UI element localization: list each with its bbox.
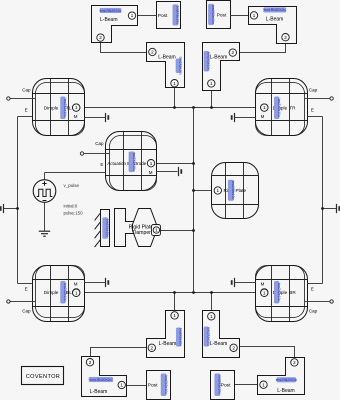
svg-text:bm2X2e10u: bm2X2e10u [176,6,180,24]
dimple D4 Cap wire [305,301,330,303]
dimple D3 Cap wire [11,301,36,303]
dimple D3 E wire [18,283,33,285]
wire: actuation pin1 to bus [155,163,194,165]
svg-text:1: 1 [75,290,78,295]
post P3 (bottom-left) instance label [161,374,168,396]
svg-text:2: 2 [151,345,154,350]
svg-text:1: 1 [217,188,220,193]
dimple D3 anchor [106,278,109,287]
L-beam B8 (bottom-right) pin 1 [260,381,267,388]
svg-text:bmLRN20X2u: bmLRN20X2u [276,378,297,382]
svg-text:Actuation Electrode: Actuation Electrode [107,161,147,166]
wire: L-beam ML pin1 drop [174,88,176,108]
L-beam B1 (top-left) pin 1 [128,12,135,19]
svg-text:BL: BL [66,290,72,295]
junction [192,189,195,192]
dimple D2 Cap wire [305,98,330,100]
L-beam B8 (bottom-right) [258,358,305,395]
dimple D2 (Dimple TR) [256,79,308,136]
L-beam B5 (bottom-mid-left) instance label [176,328,183,347]
svg-text:2: 2 [99,35,102,40]
dimple D1 (Dimple TL) [33,79,85,136]
svg-text:v_pulse: v_pulse [64,183,80,188]
svg-text:bmLRN20X2u: bmLRN20X2u [264,8,285,12]
wire: actuation Cap [84,153,110,155]
L-beam B3 (mid-left) [147,43,185,88]
wire: L-beam TL pin1 to post P1 [136,15,157,17]
voltage source v_pulse [33,180,56,203]
dimple D1 anchor [106,113,109,122]
junction [173,291,176,294]
svg-text:M: M [261,282,265,287]
L-beam B7 (bottom-left) instance label [89,377,113,382]
svg-text:1: 1 [155,228,158,233]
post P2 (top-right) instance label [208,4,215,25]
dimple D2 anchor [232,113,235,122]
svg-text:1: 1 [263,105,266,110]
junction [192,229,195,232]
svg-text:2: 2 [151,50,154,55]
dimple D4 pin 1 [261,289,268,296]
wire: L-beam TR pin2 to L-beam MR pin2 [237,44,286,53]
L-beam B1 (top-left) pin 2 [97,34,104,41]
L-beam B1 (top-left) instance label [100,8,121,13]
L-beam B4 (mid-right) [203,43,240,91]
L-beam B2 (top-right) instance label [264,8,287,13]
dimple D3 (Dimple BL) instance label [61,281,68,303]
L-beam B6 (bottom-mid-right) [203,311,240,358]
post P1 (top-left) instance label [173,5,180,26]
post P3 (bottom-left) [147,371,171,400]
svg-text:Cap: Cap [22,309,31,314]
svg-text:L-Beam: L-Beam [266,16,284,22]
L-beam B3 (mid-left) pin 1 [171,80,178,87]
wire: L-beam MR pin1 drop [211,91,213,108]
svg-text:Cap: Cap [22,87,31,92]
wire: drop to L-beam BMR pin1 [211,293,213,311]
svg-text:Post: Post [217,12,227,18]
damper U3 pin square [152,225,161,236]
dimple D4 (Dimple BR) instance label [274,281,281,303]
wire: L-beam BL pin2 to L-beam BML pin2 [91,348,149,357]
damper U3 pin 1 [153,227,159,233]
junction [210,291,213,294]
dimple D1 pin 1 [73,104,80,111]
svg-text:L-Beam: L-Beam [100,17,118,23]
actuation electrode U1 [106,132,157,191]
wire: damper pin1 to bus [161,230,194,232]
svg-text:bm2X2e10u: bm2X2e10u [277,99,281,117]
wire: center bus [193,108,195,293]
L-beam B6 (bottom-mid-right) pin 1 [208,313,215,320]
dimple D1 M wire [85,117,106,119]
post P4 (bottom-right) [211,371,235,400]
svg-text:2: 2 [293,360,296,365]
post P2 (top-right) [207,1,231,29]
actuation anchor [179,167,182,176]
L-beam B8 (bottom-right) pin 2 [291,359,298,366]
actuation electrode U1 pin 1 [147,160,154,167]
wire: left E bus [17,117,19,284]
left edge anchor [1,204,4,213]
post P4 (bottom-right) instance label [215,374,222,396]
dimple D2 E wire [308,116,323,118]
svg-text:E: E [311,287,314,292]
rigid plate U2 instance label [228,180,235,201]
post P1 (top-left) [157,2,181,29]
svg-text:1: 1 [253,13,256,18]
svg-text:Post: Post [221,383,231,389]
svg-text:Damper: Damper [133,230,151,236]
dimple D3 M wire [85,282,106,284]
svg-text:bm2X2e10u: bm2X2e10u [179,328,183,346]
junction [16,207,19,210]
svg-text:bm2X2e10u: bm2X2e10u [105,219,109,237]
svg-text:L-Beam: L-Beam [210,341,228,347]
dimple D2 (Dimple TR) instance label [274,97,281,119]
svg-text:E: E [25,107,28,112]
svg-text:initial:0: initial:0 [64,204,78,209]
L-beam B7 (bottom-left) pin 1 [118,381,125,388]
svg-text:E: E [25,287,28,292]
svg-text:E: E [100,162,103,167]
dimple D3 (Dimple BL) [33,266,85,322]
actuation electrode U1 instance label [129,152,136,172]
dimple D4 Cap terminal [330,300,333,303]
L-beam B7 (bottom-left) pin 2 [86,359,93,366]
dimple D1 (Dimple TL) instance label [61,97,68,119]
svg-text:Cap: Cap [309,87,318,92]
L-beam B2 (top-right) [249,7,297,44]
svg-text:TR: TR [289,105,296,110]
svg-text:bmLRN20X2u: bmLRN20X2u [100,9,121,13]
svg-text:L-Beam: L-Beam [158,55,176,61]
svg-text:2: 2 [232,50,235,55]
dimple D4 E wire [308,283,323,285]
actuation electrode U1 Cap terminal [80,152,83,155]
svg-text:bm2X2e10u: bm2X2e10u [178,57,182,75]
svg-text:2: 2 [232,345,235,350]
svg-text:2: 2 [89,360,92,365]
L-beam B7 (bottom-left) [82,357,127,397]
svg-text:pulse:150: pulse:150 [64,211,84,216]
L-beam B2 (top-right) pin 2 [282,34,289,41]
wire: right anchor tap [323,208,337,210]
dimple D4 (Dimple BR) [256,266,308,322]
L-beam B6 (bottom-mid-right) pin 2 [230,344,237,351]
dimple D4 anchor [232,278,235,287]
damper anchor instance label [103,218,110,239]
svg-text:L-Beam: L-Beam [277,388,295,394]
svg-text:bm2X2e10u: bm2X2e10u [277,283,281,301]
L-beam B4 (mid-right) instance label [204,51,211,71]
junction [321,207,324,210]
damper plunger [115,209,135,247]
dimple D3 Cap terminal [7,300,10,303]
L-beam B5 (bottom-mid-left) pin 1 [171,312,178,319]
svg-text:1: 1 [75,105,78,110]
rigid plate U2 pin 1 [214,187,221,194]
svg-text:Post: Post [158,13,168,19]
L-beam B3 (mid-left) instance label [176,57,183,75]
svg-text:1: 1 [210,314,213,319]
L-beam B5 (bottom-mid-left) pin 2 [148,344,155,351]
svg-text:1: 1 [131,13,134,18]
rigid plate U2 [212,163,259,219]
damper anchor (hatched) [95,210,110,248]
L-beam B8 (bottom-right) instance label [276,378,297,383]
junction [210,106,213,109]
junction [192,291,195,294]
svg-text:M: M [261,114,265,119]
svg-text:1: 1 [262,382,265,387]
wire: actuation M to anchor [157,171,178,173]
wire: drop to L-beam BML pin1 [174,293,176,311]
svg-text:Dimple: Dimple [44,290,59,295]
svg-text:bm2X2e10u: bm2X2e10u [231,181,235,199]
dimple D1 (Dimple TL) pin 1 [73,104,80,111]
wire: bottom mechanical rail [80,292,261,294]
dimple D4 M wire [235,282,256,284]
svg-text:Cap: Cap [95,141,104,146]
svg-text:L-Beam: L-Beam [210,55,228,61]
svg-text:M: M [74,114,78,119]
wire: post P2 to L-beam TR pin1 [231,15,251,17]
svg-text:bm2X2e10u: bm2X2e10u [132,153,136,171]
svg-text:bmLRN20X2u: bmLRN20X2u [90,378,111,382]
svg-text:bm2X2e10u: bm2X2e10u [211,5,215,23]
L-beam B6 (bottom-mid-right) instance label [204,327,210,347]
COVENTOR logo box [22,367,64,385]
wire: right E bus [322,117,324,284]
svg-text:L-Beam: L-Beam [90,389,108,395]
svg-text:BR: BR [289,290,296,295]
svg-text:1: 1 [263,290,266,295]
dimple D1 Cap terminal [7,97,10,100]
svg-text:Post: Post [148,383,158,389]
wire: L-beam BR pin2 to L-beam BMR pin2 [238,347,295,358]
junction [173,106,176,109]
svg-text:2: 2 [284,35,287,40]
L-beam B1 (top-left) [92,6,138,43]
dimple D2 pin 1 [261,104,268,111]
wire: v_pulse to actuation E [45,172,106,174]
L-beam B4 (mid-right) pin 1 [208,80,215,87]
wire: left anchor tap [4,208,18,210]
svg-text:1: 1 [120,383,123,388]
junction [192,162,195,165]
L-beam B4 (mid-right) pin 2 [229,49,236,56]
wire: v_pulse top stub [44,173,46,180]
junction [192,106,195,109]
L-beam B3 (mid-left) pin 2 [149,48,156,55]
wire: top mechanical rail [80,107,261,109]
svg-text:M: M [149,170,153,175]
svg-text:L-Beam: L-Beam [159,341,177,347]
right edge anchor [337,204,340,213]
dimple D2 Cap terminal [330,97,333,100]
dimple D2 (Dimple TR) pin 1 [261,104,268,111]
svg-text:M: M [74,282,78,287]
svg-text:COVENTOR: COVENTOR [26,374,60,380]
wire: post P4 to L-beam BR pin1 [235,384,260,386]
dimple D2 M wire [235,117,256,119]
L-beam B2 (top-right) pin 1 [250,12,257,19]
svg-text:Cap: Cap [309,309,318,314]
svg-text:1: 1 [173,313,176,318]
dimple D1 Cap wire [11,98,36,100]
svg-text:1: 1 [150,161,153,166]
svg-text:bm2X2e10u: bm2X2e10u [164,376,168,394]
wire: L-beam BL pin1 to post P3 [126,385,147,387]
svg-text:TL: TL [66,105,72,110]
svg-text:1: 1 [210,81,213,86]
svg-text:1: 1 [173,81,176,86]
damper U3 (Rigid Plate Damper) [133,209,157,247]
dimple D1 E wire [18,116,33,118]
dimple D3 pin 1 [73,289,80,296]
svg-text:Dimple: Dimple [44,105,59,110]
wire: L-beam TL pin2 to L-beam ML pin2 [101,43,149,53]
svg-text:E: E [311,107,314,112]
wire: bus to rigid plate pin1 [194,190,215,192]
L-beam B5 (bottom-mid-left) [147,311,185,358]
dimple D3 (Dimple BL) pin 1 [73,289,80,296]
ground [39,231,50,236]
wire: v_pulse to ground [44,203,46,232]
dimple D4 (Dimple BR) pin 1 [261,289,268,296]
